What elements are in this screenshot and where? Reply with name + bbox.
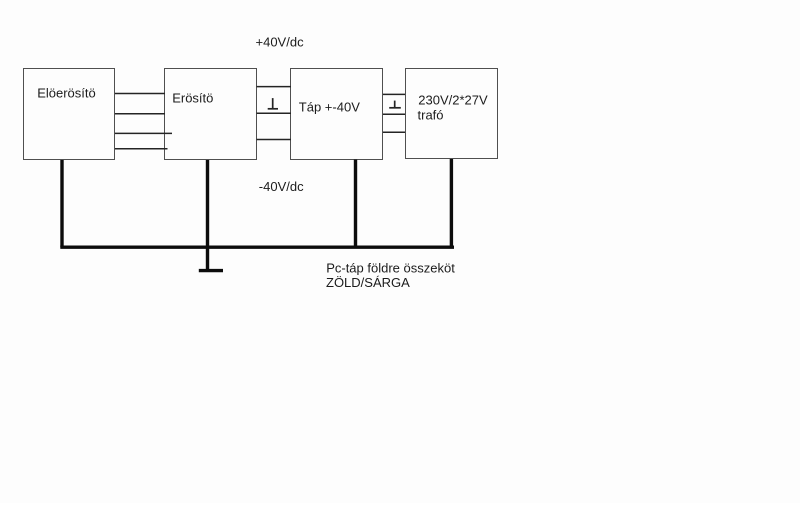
wire -V Erősítő-Táp [257, 139, 292, 141]
wire earth drop from trafó [450, 159, 453, 247]
wire earth drop from Táp [354, 160, 357, 248]
wire AC2 Táp-trafó [383, 131, 405, 133]
svg-text:Elöerösítö: Elöerösítö [37, 86, 96, 101]
wire AC0 Táp-trafó [383, 113, 405, 115]
wire signal 3 Előerősítő-Erősítő [115, 132, 172, 134]
svg-text:Erösítö: Erösítö [172, 91, 213, 106]
wire earth drop from Előerősítő [60, 160, 63, 247]
wire signal 4 Előerősítő-Erősítő [115, 148, 168, 150]
label Pc-táp földre összeköt [326, 261, 455, 276]
svg-text:+40V/dc: +40V/dc [256, 35, 305, 50]
wire earth drop from Erősítő [206, 160, 209, 271]
wire signal 1 Előerősítő-Erősítő [115, 93, 165, 95]
svg-text:trafó: trafó [418, 107, 444, 122]
svg-text:Táp +-40V: Táp +-40V [299, 99, 360, 114]
ground [199, 269, 223, 272]
label -40V/dc [259, 179, 304, 194]
label ZÖLD/SÁRGA [326, 275, 410, 290]
svg-text:ZÖLD/SÁRGA: ZÖLD/SÁRGA [326, 275, 410, 290]
block Előerősítő [24, 69, 115, 160]
block 230V/2*27V trafó [406, 69, 498, 159]
block Táp +-40V [291, 69, 383, 160]
svg-text:Pc-táp földre összeköt: Pc-táp földre összeköt [326, 261, 455, 276]
wire signal 2 Előerősítő-Erősítő [115, 113, 165, 115]
wire earth bus [60, 245, 454, 248]
label +40V/dc [256, 35, 305, 50]
ground symbol at Táp input [268, 98, 278, 109]
wire 0V Erősítő-Táp [257, 112, 292, 114]
ground symbol at trafó input [389, 101, 401, 108]
svg-text:-40V/dc: -40V/dc [259, 179, 304, 194]
svg-text:230V/2*27V: 230V/2*27V [418, 93, 488, 108]
wire AC1 Táp-trafó [383, 93, 405, 95]
block Erősítő [165, 69, 257, 160]
wire +V Erősítő-Táp [257, 86, 292, 88]
